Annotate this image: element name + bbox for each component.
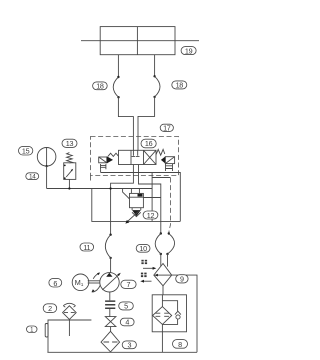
svg-text:4: 4 xyxy=(125,318,129,327)
svg-text:14: 14 xyxy=(29,174,36,181)
svg-text:11: 11 xyxy=(83,243,90,252)
svg-text:18: 18 xyxy=(96,82,104,91)
svg-text:16: 16 xyxy=(145,139,153,148)
svg-text:8: 8 xyxy=(178,340,182,349)
svg-text:7: 7 xyxy=(127,280,131,289)
svg-text:13: 13 xyxy=(66,139,74,148)
svg-text:18: 18 xyxy=(176,81,184,90)
svg-text:12: 12 xyxy=(147,211,155,220)
svg-text:15: 15 xyxy=(22,146,30,155)
svg-text:2: 2 xyxy=(48,304,52,313)
svg-text:5: 5 xyxy=(124,302,128,311)
svg-text:17: 17 xyxy=(163,123,171,132)
svg-text:10: 10 xyxy=(139,244,147,253)
svg-text:19: 19 xyxy=(185,46,193,55)
svg-text:9: 9 xyxy=(180,275,184,284)
svg-text:3: 3 xyxy=(127,341,131,350)
svg-text:6: 6 xyxy=(53,279,57,288)
